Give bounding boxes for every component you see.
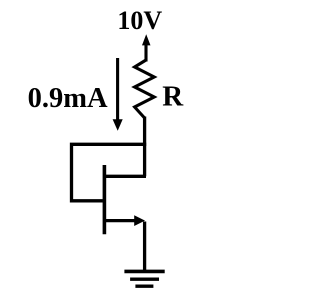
svg-text:0.9mA: 0.9mA xyxy=(28,83,108,114)
transistor Q1 channel bar xyxy=(103,165,107,234)
ground symbol xyxy=(124,271,164,286)
transistor Q1 source line xyxy=(103,219,136,222)
current arrow (down) xyxy=(116,58,119,120)
wire: resistor bottom to drain node xyxy=(143,117,146,177)
transistor Q1 drain line xyxy=(103,175,146,178)
wire: source to ground xyxy=(143,222,146,272)
wire: gate-drain loop xyxy=(72,144,147,201)
resistor R1 zigzag xyxy=(135,60,155,118)
svg-text:R: R xyxy=(162,81,184,113)
supply arrow (up) xyxy=(144,44,147,62)
transistor Q1 source arrowhead xyxy=(134,215,145,226)
svg-text:10V: 10V xyxy=(117,6,162,35)
